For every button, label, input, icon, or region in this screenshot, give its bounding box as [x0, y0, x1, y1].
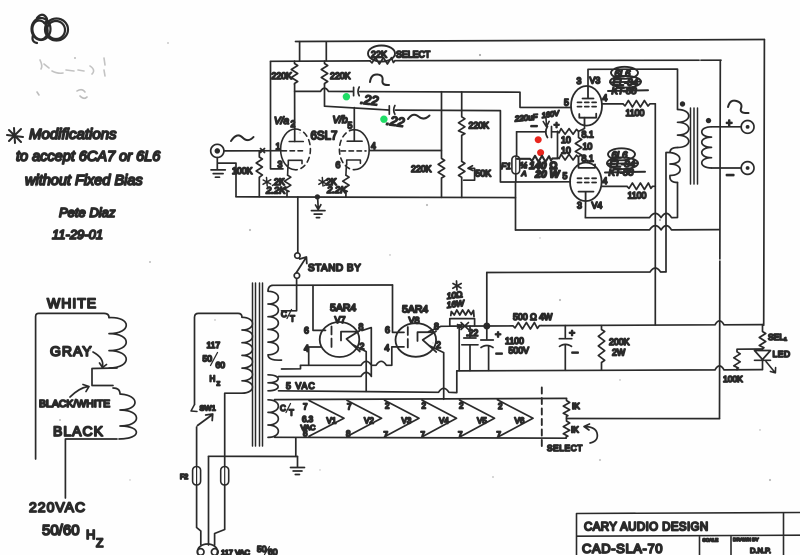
arrow to black/white tap	[70, 387, 88, 398]
svg-text:4: 4	[385, 343, 390, 353]
resistor SEL pilot dropper	[759, 325, 765, 349]
wire HV plate V7	[313, 285, 326, 330]
svg-text:.22: .22	[360, 92, 380, 109]
resistor 100K input	[256, 151, 262, 197]
svg-text:3: 3	[577, 76, 582, 86]
svg-text:V6: V6	[515, 417, 525, 426]
resistor 140 ohm 20W (handwritten, heavy)	[517, 156, 558, 162]
wire V4 screen pin4	[602, 185, 627, 187]
wire V4 plate pin3 down	[584, 201, 586, 218]
svg-text:+: +	[726, 118, 732, 130]
resistor 10 (vertical between cathodes)	[575, 131, 581, 164]
wire secondary top to + jack	[712, 126, 742, 128]
wire V1a plate to C1 (with jump over V1b plate line)	[295, 88, 353, 91]
svg-text:V4: V4	[439, 417, 449, 426]
wire V4 cathode from node2	[578, 157, 580, 164]
winding upper (white-gray)	[109, 318, 126, 368]
svg-text:IK: IK	[571, 425, 579, 435]
B+ node dot	[483, 323, 490, 330]
phase dot secondary	[706, 118, 711, 123]
T1 HV secondary winding	[268, 285, 282, 360]
wire secondary bottom to - jack	[712, 167, 742, 169]
screen bus vertical (1100s to B+)	[654, 104, 656, 325]
heater V3 chevron	[385, 400, 420, 437]
scan specks	[35, 42, 771, 481]
svg-text:20 W: 20 W	[534, 169, 561, 181]
svg-text:100K: 100K	[723, 374, 743, 384]
svg-text:4: 4	[603, 93, 608, 103]
handwritten resistor 10 ohm 16W	[451, 310, 474, 317]
capacitor C1 .22 coupling	[354, 87, 360, 96]
wire V3 plate pin3 up to OT line	[588, 69, 678, 109]
svg-text:60: 60	[216, 360, 226, 370]
svg-text:7: 7	[303, 403, 308, 412]
title block border	[577, 513, 800, 555]
svg-text:V3: V3	[402, 417, 412, 426]
rectifier tube V7 5AR4	[320, 322, 360, 357]
resistor 200K 2W bleeder	[598, 325, 604, 370]
svg-text:Z: Z	[96, 536, 103, 550]
wire grid-return jog (y197 to rail)	[515, 198, 517, 230]
svg-text:T: T	[289, 409, 294, 418]
capacitor C2 .22 coupling	[389, 106, 395, 115]
junction dot .22 leg	[457, 324, 461, 328]
handwritten sine mark at input	[231, 135, 254, 141]
svg-text:C: C	[280, 404, 286, 413]
svg-text:8.1: 8.1	[582, 130, 594, 140]
svg-text:V1: V1	[327, 417, 337, 426]
svg-text:V5: V5	[477, 417, 487, 426]
resistor 100K (LED shunt)	[734, 349, 763, 370]
svg-text:50K: 50K	[476, 169, 492, 179]
bottom rail of input stage (node)	[236, 196, 516, 199]
svg-text:1100: 1100	[626, 108, 645, 118]
svg-text:F1: F1	[501, 161, 511, 171]
cathode chain V3: wire to node1	[579, 124, 585, 131]
svg-text:500 Ω 4W: 500 Ω 4W	[513, 312, 553, 322]
wire jack sleeve to bottom rail	[217, 163, 236, 197]
wire HV top to rectifier plates	[272, 284, 393, 286]
pin4 bus V7-V8 (jumps)	[301, 347, 405, 365]
svg-text:8: 8	[303, 429, 308, 438]
svg-text:C: C	[281, 310, 287, 319]
select dashed cut line	[541, 388, 543, 449]
svg-text:SCALE: SCALE	[703, 538, 719, 544]
wire cathode node join vertical	[557, 131, 559, 158]
svg-text:CAD-SLA-70: CAD-SLA-70	[582, 541, 663, 555]
svg-text:117 VAC: 117 VAC	[221, 548, 250, 555]
T1 primary winding	[242, 317, 253, 393]
svg-text:7: 7	[458, 431, 463, 440]
svg-text:6SL7: 6SL7	[311, 131, 338, 143]
capacitor 1100uF 500V #1	[481, 326, 494, 371]
wire cap left leg down to F1	[516, 132, 518, 156]
svg-text:50: 50	[203, 354, 213, 364]
X mark on bypassed wire	[458, 323, 469, 330]
svg-text:V4: V4	[592, 201, 603, 211]
svg-text:V7: V7	[335, 315, 346, 325]
wire V7 pin2 down to 5V bus	[353, 345, 367, 392]
svg-text:220VAC: 220VAC	[29, 499, 86, 515]
output jack +	[741, 121, 754, 134]
output transformer T3 primary upper	[678, 110, 689, 148]
svg-text:220K: 220K	[272, 71, 293, 81]
wire F2 to plug	[197, 485, 201, 545]
svg-text:z: z	[217, 379, 221, 388]
svg-text:1100: 1100	[505, 336, 524, 346]
svg-text:BLACK: BLACK	[53, 423, 104, 439]
T1 6.3V winding	[268, 400, 278, 438]
svg-text:1: 1	[276, 142, 281, 152]
capacitor 1100uF 500V #2	[559, 326, 572, 371]
red dot mark 2	[537, 149, 544, 156]
wire fuse to plug	[215, 485, 225, 545]
svg-text:100K: 100K	[232, 166, 253, 176]
svg-text:8: 8	[346, 430, 351, 439]
svg-text:V/b: V/b	[333, 115, 348, 126]
resistor 500 ohm 4W	[487, 323, 542, 330]
svg-text:+: +	[554, 121, 560, 132]
svg-text:7: 7	[421, 431, 426, 440]
heater V2 chevron	[347, 400, 382, 436]
wire C1 to V3 grid	[360, 92, 571, 108]
svg-text:V/a: V/a	[274, 116, 289, 127]
svg-text:IK: IK	[572, 401, 580, 411]
svg-text:+: +	[569, 328, 575, 340]
power transformer T1 core	[253, 283, 263, 446]
heater V1 chevron	[309, 401, 344, 437]
svg-text:10: 10	[583, 142, 593, 152]
svg-text:SELECT: SELECT	[547, 443, 583, 453]
B+ rail	[271, 60, 722, 61]
svg-text:V2: V2	[364, 417, 374, 426]
svg-text:1100: 1100	[628, 191, 647, 201]
resistor 1K lower	[563, 419, 569, 439]
svg-text:SW1: SW1	[200, 404, 216, 413]
faint pencil smudge 2	[37, 90, 87, 99]
svg-text:without Fixed Bias: without Fixed Bias	[25, 173, 143, 189]
svg-text:10: 10	[561, 146, 571, 156]
svg-text:BLACK/WHITE: BLACK/WHITE	[39, 398, 110, 410]
svg-text:SEL₁: SEL₁	[768, 332, 787, 342]
wire jack to V1a grid pin1	[224, 149, 282, 153]
tube V1a (half of 6SL7)	[281, 129, 311, 175]
tube V4 output	[570, 163, 602, 202]
wire 5V top lead to V7 pin8	[279, 328, 372, 377]
wire node up	[486, 273, 488, 327]
top frame wire	[296, 40, 765, 42]
svg-text:2: 2	[422, 402, 427, 411]
arrow to gray tap	[93, 352, 103, 366]
hand arrow at lower 1K	[584, 424, 597, 443]
svg-text:V8: V8	[409, 316, 420, 326]
svg-text:2.2K: 2.2K	[326, 185, 347, 196]
svg-text:60: 60	[268, 547, 278, 555]
wire SW1 to F2	[196, 427, 198, 467]
svg-text:5: 5	[563, 171, 568, 181]
svg-text:–: –	[496, 348, 503, 360]
resistor 1100 screen V3	[623, 101, 655, 108]
svg-text:DRAWN BY: DRAWN BY	[733, 537, 759, 543]
resistor 220K plate V1a	[291, 61, 297, 85]
svg-text:Pete Diaz: Pete Diaz	[59, 205, 116, 220]
svg-text:5: 5	[564, 98, 569, 108]
svg-text:6: 6	[304, 326, 309, 336]
B+ feed line to OT CT	[487, 268, 666, 273]
svg-text:2: 2	[291, 119, 296, 129]
svg-text:6: 6	[336, 160, 341, 170]
svg-text:2W: 2W	[612, 348, 626, 358]
T1 5V winding	[268, 375, 278, 391]
resistor 22K select (in rail)	[370, 58, 395, 65]
svg-text:7: 7	[347, 403, 352, 412]
B+ line to pilot (jumps secondary drop)	[542, 321, 764, 326]
capacitor 220uF 160V bias	[546, 127, 552, 138]
wire T1 primary top to SW1	[195, 313, 243, 404]
handwritten sine after C1	[370, 74, 389, 85]
switch STAND BY	[297, 197, 299, 253]
frame right vertical (B+ to pilot)	[763, 40, 766, 326]
svg-text:500V: 500V	[509, 346, 530, 356]
LED arrow	[766, 362, 776, 373]
hand ellipse 6L6 (V4)	[608, 148, 635, 160]
resistor 10 (lower horizontal)	[558, 154, 579, 160]
svg-text:5 VAC: 5 VAC	[286, 381, 316, 391]
switch SW1	[191, 405, 197, 412]
resistor 1K upper	[563, 398, 569, 418]
printed 10R jumper box	[450, 319, 475, 326]
wire V1b plate pin5	[353, 108, 355, 142]
wire V7 pin4	[309, 347, 321, 365]
svg-text:11-29-01: 11-29-01	[52, 227, 103, 242]
svg-text:5AR4: 5AR4	[330, 302, 356, 314]
fuse F1 1/2A	[512, 156, 520, 174]
mains transformer T2 (left, colour-coded primary)	[36, 313, 137, 498]
svg-text:2.2K: 2.2K	[265, 186, 286, 197]
svg-text:50/60: 50/60	[42, 522, 80, 539]
hand ellipse around 22K	[368, 46, 395, 62]
svg-text:+: +	[495, 329, 501, 341]
resistor 2K (crossed out) cathode V1a	[284, 175, 290, 197]
svg-text:7: 7	[497, 431, 502, 440]
ground symbol (PSU)	[291, 457, 305, 475]
svg-text:A: A	[521, 169, 527, 178]
svg-text:.22: .22	[466, 328, 478, 338]
doodle circles top-left	[31, 15, 68, 43]
svg-text:SELECT: SELECT	[396, 50, 431, 60]
svg-text:GRAY: GRAY	[50, 343, 93, 359]
handwritten sine at output	[728, 101, 749, 113]
wire ground prong	[208, 456, 210, 545]
hand ellipse EL-34 struck (V3)	[610, 76, 641, 88]
wire secondary low end down	[719, 60, 722, 418]
wire stub left box	[300, 41, 327, 61]
OT secondary winding	[702, 127, 712, 168]
heater V4 chevron	[422, 400, 457, 437]
green dot mark 2	[380, 116, 387, 123]
rectifier tube V8 5AR4	[396, 323, 437, 357]
svg-text:10: 10	[561, 135, 571, 145]
heater V6 chevron	[498, 400, 534, 438]
wire V1b plate to C2	[325, 85, 389, 111]
AC plug	[198, 544, 218, 555]
wire B+ rail left leg down to V1a	[271, 61, 284, 169]
wire: black lead bottom	[65, 439, 117, 498]
wire .22 left leg down	[458, 326, 460, 371]
ground at input jack	[211, 158, 225, 178]
svg-text:220K: 220K	[411, 164, 432, 174]
tube V3 output	[571, 86, 602, 126]
svg-text:–: –	[572, 347, 579, 359]
capacitor .22 PSU	[462, 326, 478, 371]
svg-text:3: 3	[577, 201, 582, 211]
tube V1b (half of 6SL7)	[339, 130, 369, 176]
hand ellipse EL-34 struck (V4)	[607, 158, 638, 170]
wire V8 pin2 down to heater rail	[429, 346, 444, 400]
wire 1K junction to pilot drop	[567, 418, 720, 420]
svg-text:LED: LED	[773, 349, 791, 359]
wire V1a plate pin2 up	[294, 85, 296, 142]
heater top rail	[275, 398, 567, 399]
potentiometer 50K	[459, 161, 465, 197]
wire T1 primary bottom	[225, 393, 242, 466]
svg-text:D.N.P.: D.N.P.	[750, 546, 771, 555]
bottom long rail (ground return upper)	[516, 226, 720, 230]
ground at first stage rail	[315, 194, 320, 199]
svg-text:H: H	[210, 375, 216, 384]
wire V4 plate line to OT bottom (jumps)	[585, 183, 677, 218]
svg-text:to accept 6CA7 or 6L6: to accept 6CA7 or 6L6	[16, 149, 161, 165]
svg-text:5: 5	[348, 121, 353, 131]
wire OT CT down to B+ feed	[666, 153, 670, 272]
svg-text:STAND BY: STAND BY	[308, 263, 361, 274]
svg-text:4: 4	[304, 344, 309, 354]
svg-text:220K: 220K	[330, 71, 351, 81]
svg-text:T: T	[290, 315, 295, 324]
lower PSU rail	[457, 366, 763, 371]
svg-text:.22: .22	[386, 113, 407, 130]
wire C2 to V4 grid drop	[396, 110, 571, 198]
resistor 2K (crossed out) cathode V1b	[343, 175, 349, 197]
svg-text:117: 117	[207, 340, 221, 350]
green dot mark 1	[343, 93, 350, 100]
svg-text:Modifications: Modifications	[29, 126, 117, 143]
heater bottom rail	[275, 436, 567, 439]
svg-text:2: 2	[385, 402, 390, 411]
wire F1 bottom to V4 grid line	[515, 174, 517, 182]
resistor 220K feedback leg	[438, 92, 444, 198]
resistor 220K V4-grid leg upper	[459, 92, 465, 161]
svg-text:CARY AUDIO DESIGN: CARY AUDIO DESIGN	[584, 522, 709, 534]
svg-text:3: 3	[278, 160, 283, 170]
handwritten asterisk (10R)	[453, 281, 461, 290]
svg-text:2: 2	[498, 402, 503, 411]
wire V8 pin8 to B+ node (10R section)	[429, 326, 487, 332]
wire HV bottom to pin4 bus	[282, 365, 301, 369]
phase dot primary	[680, 101, 685, 106]
svg-text:5AR4: 5AR4	[402, 304, 428, 316]
wire HV plate V8	[393, 285, 405, 332]
handwritten sine after C2	[408, 115, 430, 119]
svg-text:2: 2	[459, 402, 464, 411]
fuse F2	[193, 467, 201, 486]
fuse F3 line side	[221, 467, 229, 486]
faint pencil smudge 1	[40, 58, 105, 76]
output jack -	[741, 162, 754, 175]
hand ellipse 6L6 (V3)	[611, 67, 638, 79]
svg-text:4: 4	[603, 176, 608, 186]
svg-text:4: 4	[371, 141, 376, 151]
input jack J1	[211, 144, 224, 157]
svg-text:8: 8	[434, 322, 439, 332]
svg-text:F2: F2	[180, 474, 188, 481]
wire V3 screen pin4	[602, 103, 623, 105]
wire: white lead top	[36, 313, 109, 459]
LED pilot	[755, 351, 771, 370]
wire V1b pin4 to 220K/feedback node	[369, 150, 441, 152]
svg-text:7: 7	[384, 431, 389, 440]
resistor 220K plate V1b	[321, 61, 327, 85]
red dot mark 1	[535, 136, 542, 143]
wire: gray tap step	[92, 368, 117, 386]
OT core laminations	[691, 108, 698, 184]
svg-text:220K: 220K	[469, 121, 490, 131]
wire 6.3 CT to ground line	[295, 438, 297, 456]
resistor 1100 screen V4	[627, 183, 655, 190]
svg-text:V3: V3	[590, 76, 601, 86]
output transformer T3 primary lower	[670, 148, 680, 183]
resistor 10 (upper horizontal)	[558, 129, 579, 135]
svg-text:22K: 22K	[371, 50, 387, 60]
handwritten asterisk note marker	[7, 128, 23, 143]
winding lower (blackwhite-black)	[113, 388, 137, 439]
svg-text:6: 6	[385, 325, 390, 335]
svg-text:WHITE: WHITE	[47, 295, 97, 311]
chassis line to plug	[209, 455, 298, 457]
wire 5V bottom lead bus	[279, 371, 457, 393]
heater V5 chevron	[460, 400, 495, 437]
svg-text:200K: 200K	[609, 337, 630, 347]
svg-text:–: –	[727, 167, 735, 182]
svg-text:H: H	[86, 527, 95, 542]
svg-text:8: 8	[359, 322, 364, 332]
